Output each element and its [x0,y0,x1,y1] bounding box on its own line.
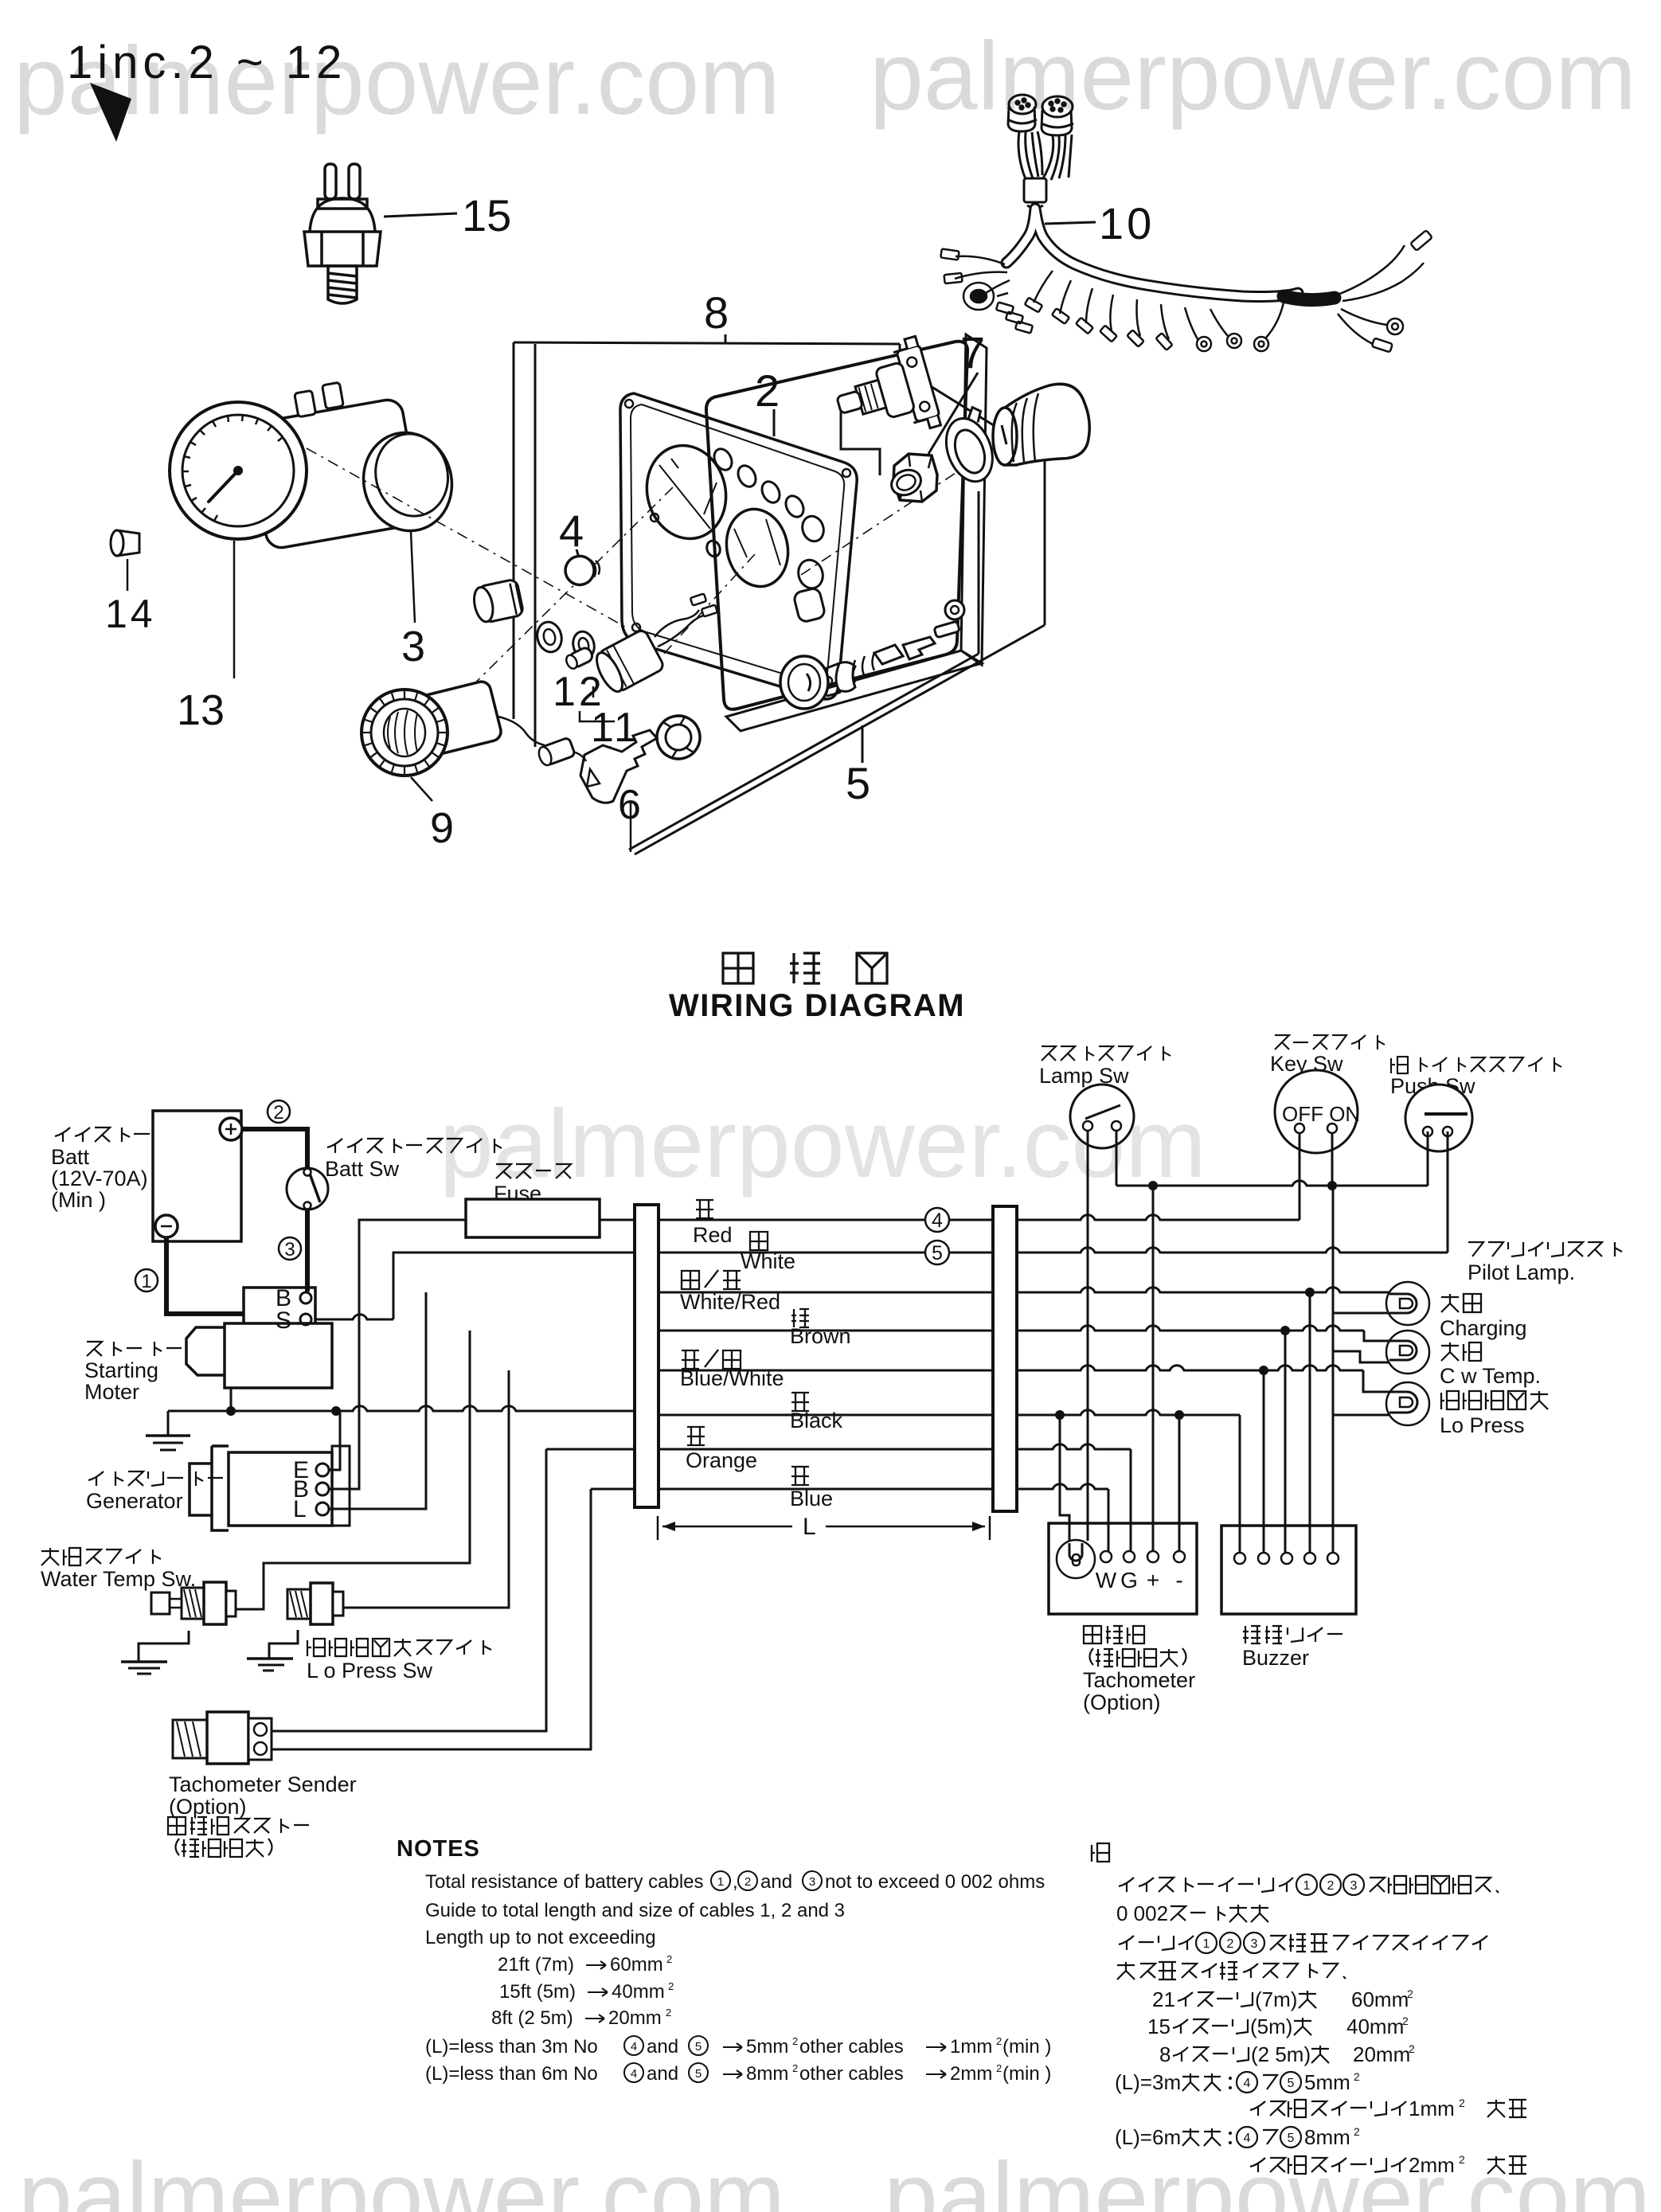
svg-text:15ft (5m): 15ft (5m) [499,1981,576,2003]
svg-text:4: 4 [932,1210,943,1232]
svg-text:(L)=less than 6m No: (L)=less than 6m No [425,2063,598,2085]
tachometer box [1049,1523,1197,1614]
svg-text:Buzzer: Buzzer [1242,1646,1309,1670]
svg-text:(Option): (Option) [169,1795,247,1819]
gauge 13 face [170,402,307,539]
blue wire row [591,1488,993,1491]
battery switch [287,1168,328,1210]
battery minus terminal [155,1215,178,1237]
starter motor label [87,1342,102,1356]
lamp cap 9 knurled [362,690,447,776]
cw temp lamp [1386,1331,1429,1374]
svg-text:1mm: 1mm [1409,2097,1455,2120]
white wire row [659,1252,993,1254]
svg-text:2: 2 [666,2007,671,2019]
leader line 15 [384,213,457,217]
water temp switch label [41,1548,59,1565]
svg-text:(min ): (min ) [1002,2063,1051,2085]
svg-text:palmerpower.com: palmerpower.com [870,21,1636,130]
circled 5 marker [925,1241,949,1264]
svg-text:1: 1 [717,1875,724,1889]
svg-text:9: 9 [430,804,454,852]
svg-text:2: 2 [996,2035,1002,2047]
svg-text:2: 2 [273,1102,283,1124]
gasket plate [620,393,857,699]
blue row right [1017,1484,1108,1489]
panel small holes [711,446,736,473]
svg-text:Lo Press: Lo Press [1440,1413,1525,1437]
svg-text:OFF ON: OFF ON [1282,1102,1360,1126]
red wire row [659,1219,993,1221]
svg-text:5: 5 [1288,2132,1295,2145]
leader line 4 [576,549,579,557]
tach plus wire [1152,1186,1155,1553]
lo press switch wire [343,1370,509,1608]
red row right [1017,1215,1299,1220]
blue wire label [791,1467,809,1485]
svg-text:Blue/White: Blue/White [680,1366,784,1390]
bulb 12 [565,646,595,670]
svg-text:13: 13 [177,686,225,734]
svg-text:(L)=: (L)= [1115,2070,1152,2094]
harness left branch wires [940,249,1033,334]
svg-text:20mm: 20mm [608,2007,662,2029]
lamp switch left wire to tachometer [1087,1131,1089,1541]
svg-text:2: 2 [996,2062,1002,2074]
leader line 5 [862,725,864,763]
white-red wire label [682,1271,699,1289]
svg-text:L: L [293,1496,307,1522]
key switch 5 [780,600,964,709]
dimension line L [657,1516,659,1540]
svg-text:5: 5 [846,758,870,808]
svg-text:3: 3 [1350,1879,1358,1893]
svg-text:8mm: 8mm [746,2063,788,2085]
svg-text:not to exceed 0 002 ohms: not to exceed 0 002 ohms [825,1871,1045,1893]
battery cable 2 wire [242,1129,307,1167]
svg-text:-: - [1175,1568,1182,1593]
svg-text:(Option): (Option) [1083,1690,1161,1714]
push switch left wire [1427,1131,1429,1186]
svg-text:Brown: Brown [790,1324,851,1348]
svg-text:Red: Red [693,1223,733,1247]
leader line 8 [725,334,727,343]
svg-text:20mm: 20mm [1353,2042,1410,2066]
svg-text:5: 5 [695,2067,702,2081]
svg-text:,: , [733,1871,738,1893]
mounting box 8 outline [514,342,900,344]
svg-text:14: 14 [105,592,156,636]
lo press lamp [1386,1382,1429,1425]
battery box [153,1111,241,1241]
battery switch label [327,1139,342,1153]
tachometer label [1084,1626,1101,1643]
orange wire label [687,1427,705,1445]
leader line 9 [411,777,432,801]
generator label [88,1471,104,1486]
washer b [570,629,596,660]
washer a [534,619,565,655]
svg-text:7: 7 [960,327,985,377]
rubber boot [993,384,1089,465]
arrow marker triangle [90,83,131,142]
svg-text:4: 4 [1244,2077,1251,2090]
panel pilot hole small [705,539,722,558]
ignition supply bus wire [1116,1181,1428,1186]
retaining ring 11 [652,711,704,763]
svg-text:4: 4 [631,2040,637,2054]
svg-text:2: 2 [1459,2097,1465,2109]
svg-text:6m: 6m [1152,2125,1181,2149]
panel keyswitch hole [793,587,826,623]
gasket big hole [637,437,736,547]
brown wire label [791,1309,809,1327]
battery switch to starter B wire [305,1209,310,1292]
orange row right [1017,1444,1131,1449]
bezel ring 3 [354,424,463,541]
svg-text:2: 2 [1402,2015,1409,2027]
tachometer sender [173,1712,272,1764]
svg-text:2: 2 [1459,2153,1465,2166]
svg-text:5: 5 [695,2040,702,2054]
ground symbol lo press [247,1657,293,1660]
svg-text:6: 6 [618,782,641,828]
svg-text:2: 2 [668,1980,674,1992]
lo press switch ground wire [269,1630,298,1659]
svg-text:2: 2 [1227,1937,1234,1951]
svg-text:2: 2 [1327,1879,1335,1893]
lo press label [1441,1391,1459,1409]
buzzer label [1243,1626,1260,1643]
red wire label [696,1200,713,1218]
svg-text:15: 15 [462,190,511,240]
notes japanese line 11 [1250,2158,1265,2172]
svg-text:(12V-70A): (12V-70A) [51,1167,148,1190]
leader line 3 [411,532,415,623]
cable 3 circled label [279,1237,301,1260]
generator L to white-red wire [330,1292,426,1509]
svg-text:8ft (2 5m): 8ft (2 5m) [491,2007,573,2029]
push switch [1405,1085,1472,1151]
svg-text:Water Temp Sw.: Water Temp Sw. [41,1567,196,1591]
blue wire to sender [268,1489,591,1749]
leader line 7 [928,373,978,454]
svg-text:L: L [803,1514,816,1540]
lamp switch right wire to bus [1116,1131,1118,1186]
lo press lamp bottom lead [1333,1414,1389,1417]
svg-text:8: 8 [704,287,729,338]
blue-white wire row [635,1370,993,1372]
svg-text:1inc.2 ~ 12: 1inc.2 ~ 12 [67,37,346,88]
lamp switch label [1042,1046,1056,1061]
brown wire row [635,1330,993,1332]
svg-text:1: 1 [1203,1937,1210,1951]
svg-text:3m: 3m [1152,2070,1181,2094]
lock washer [936,405,1002,488]
svg-text:3: 3 [809,1875,815,1889]
svg-text:Moter: Moter [84,1380,139,1404]
svg-text:Tachometer Sender: Tachometer Sender [169,1772,357,1796]
buzzer terminals [1234,1553,1245,1564]
buzzer wire brown branch [1284,1331,1287,1553]
svg-text:NOTES: NOTES [397,1836,480,1862]
lamp socket wires [655,610,707,647]
circled 4 marker [925,1208,949,1232]
panel cutout step [841,403,880,475]
right connector bar [993,1206,1017,1511]
leader line 6 [630,801,632,852]
pilot lamp label [1468,1242,1483,1256]
svg-text:2mm: 2mm [1409,2153,1455,2177]
svg-text:21ft (7m): 21ft (7m) [498,1954,574,1976]
ground symbol main [167,1411,170,1436]
svg-text:Orange: Orange [686,1448,757,1472]
notes japanese line 3 [1119,1936,1134,1950]
buzzer wire blue-white branch [1263,1370,1265,1553]
cw temp label [1441,1342,1459,1361]
leader line 13 [233,541,236,678]
panel right holes [799,514,827,544]
buzzer box [1221,1526,1356,1614]
cw temp lamp second lead [1333,1351,1389,1362]
lamp 9 wire [498,717,545,745]
svg-text:5: 5 [932,1242,943,1264]
water temp switch ground wire [139,1631,189,1662]
svg-text:1: 1 [1303,1879,1311,1893]
harness sleeve [1284,296,1335,300]
svg-text:3: 3 [1251,1937,1258,1951]
svg-text:C w Temp.: C w Temp. [1440,1364,1541,1388]
svg-text:Batt Sw: Batt Sw [325,1157,400,1181]
white wire label [750,1232,768,1250]
nut 7 [893,454,937,502]
blue-white row right [1017,1366,1363,1370]
svg-text:0 002: 0 002 [1116,1901,1168,1925]
svg-text:2: 2 [666,1953,672,1965]
white row right [1017,1248,1448,1253]
svg-text:60mm: 60mm [1351,1987,1409,2011]
white-red wire row [659,1292,993,1294]
svg-text:Starting: Starting [84,1358,158,1382]
key switch label [1275,1035,1289,1049]
harness dangling wires [1025,271,1241,351]
key switch off wire to red [1299,1133,1301,1220]
battery plus terminal [220,1118,242,1140]
svg-text:Total resistance of battery ca: Total resistance of battery cables [425,1871,704,1893]
starter S to white wire [315,1315,393,1319]
svg-text:S: S [276,1307,291,1334]
svg-text:2: 2 [1354,2125,1360,2138]
svg-text:Lamp Sw: Lamp Sw [1039,1064,1129,1088]
svg-text:2: 2 [1407,1987,1413,2000]
battery cable 1 wire [166,1237,244,1314]
sensor switch 15 [304,164,381,303]
blue-white wire label [682,1350,699,1369]
svg-text:other cables: other cables [799,2036,904,2058]
svg-text:2: 2 [792,2035,798,2047]
svg-text:21: 21 [1152,1987,1175,2011]
svg-text:other cables: other cables [799,2063,904,2085]
orange wire to sender [268,1449,546,1731]
lamp switch [1070,1085,1134,1148]
svg-text:G: G [1120,1568,1138,1593]
charging lamp bottom lead [1333,1312,1389,1315]
black wire row [635,1414,993,1417]
harness assembly 10 [1008,95,1073,208]
brown row right [1017,1326,1364,1331]
svg-text:WIRING DIAGRAM: WIRING DIAGRAM [669,988,965,1023]
svg-text:(L)=less than 3m No: (L)=less than 3m No [425,2036,598,2058]
key switch [1275,1070,1358,1153]
svg-text:(L)=: (L)= [1115,2125,1152,2149]
water temp switch wire [236,1331,470,1609]
svg-text:(Min ): (Min ) [51,1188,106,1212]
svg-text:W: W [1096,1568,1117,1593]
svg-text:Pilot Lamp.: Pilot Lamp. [1468,1260,1575,1284]
svg-text:5mm: 5mm [746,2036,788,2058]
tachometer lamp symbol [1057,1540,1095,1578]
svg-text:Length up to not exceeding: Length up to not exceeding [425,1927,656,1948]
gasket screw holes [625,400,633,408]
svg-text:5: 5 [1288,2077,1295,2090]
tach minus wire [1178,1415,1181,1553]
svg-text:10: 10 [1099,198,1155,248]
svg-text:8: 8 [1159,2042,1171,2066]
svg-text:White: White [741,1249,795,1273]
black wire label [791,1393,809,1411]
svg-text:(7m): (7m) [1255,1987,1297,2011]
svg-text:Black: Black [790,1409,843,1432]
svg-text:palmerpower.com: palmerpower.com [884,2142,1651,2212]
lamp body 9 [408,680,502,759]
ignition switch upper [827,336,942,451]
starter ground wire [230,1388,233,1411]
svg-text:(5m): (5m) [1250,2015,1292,2038]
svg-text:40mm: 40mm [612,1981,665,2003]
notes japanese line 9 [1250,2101,1265,2116]
svg-text:L o Press Sw: L o Press Sw [307,1659,433,1682]
orange wire row [546,1448,993,1451]
white-red row right [1017,1288,1389,1292]
push switch right wire to white [1447,1131,1449,1253]
lamp socket 12 [592,628,666,696]
svg-text:and: and [647,2063,678,2085]
svg-text:White/Red: White/Red [680,1290,780,1314]
svg-text:palmerpower.com: palmerpower.com [18,2142,785,2212]
tach lamp wire [1060,1415,1069,1542]
harness right wires [1254,230,1432,352]
fuse to red row wire [600,1219,635,1221]
charging label [1441,1294,1459,1312]
cable 1 circled label [135,1269,158,1292]
generator body [190,1446,332,1530]
svg-text:2: 2 [792,2062,798,2074]
svg-text:Guide to total length and size: Guide to total length and size of cables… [425,1900,845,1921]
svg-text:(min ): (min ) [1002,2036,1051,2058]
svg-text:Tachometer: Tachometer [1083,1668,1195,1692]
charging lamp [1386,1282,1429,1325]
key switch on wire common [1331,1133,1334,1186]
notes japanese line 4 [1117,1962,1135,1979]
svg-text:1mm: 1mm [950,2036,992,2058]
water temp switch [151,1582,236,1624]
leader line 10 [1045,222,1096,224]
generator B to fuse wire [330,1220,466,1489]
lo press switch [287,1583,343,1624]
button part [471,579,524,624]
svg-text:2: 2 [1409,2042,1415,2055]
svg-text:Batt: Batt [51,1145,90,1169]
svg-text:40mm: 40mm [1346,2015,1404,2038]
leader line 14 [127,559,129,591]
ground symbol water temp [121,1660,167,1663]
axis construction lines [307,448,629,629]
svg-text:4: 4 [631,2067,637,2081]
svg-text:and: and [760,1871,792,1893]
black row right [1017,1410,1240,1415]
title wiring diagram japanese [723,953,753,983]
generator E ground wire [330,1413,340,1470]
svg-text:(2 5m): (2 5m) [1251,2042,1311,2066]
left connector bar [635,1205,659,1507]
svg-text:Charging: Charging [1440,1316,1527,1340]
bulb part 14 [117,530,139,556]
tachometer terminals [1100,1551,1112,1562]
svg-text:5mm: 5mm [1304,2070,1350,2094]
fuse box [466,1199,600,1237]
notes japanese line 1 [1119,1878,1134,1892]
svg-text:2: 2 [745,1875,751,1889]
key 6 [580,730,657,803]
svg-text:Blue: Blue [790,1487,833,1510]
svg-text:8mm: 8mm [1304,2125,1350,2149]
svg-text:15: 15 [1147,2015,1171,2038]
panel plate center hole [720,503,795,592]
gauge needle [209,471,238,502]
cable 2 circled label [268,1100,290,1123]
svg-text:60mm: 60mm [610,1954,663,1976]
blanking knob 4 [563,553,603,588]
fuse label [496,1164,511,1178]
svg-text:1: 1 [141,1271,151,1292]
svg-text:2: 2 [1354,2070,1360,2083]
push switch label [1391,1057,1408,1073]
svg-text:and: and [647,2036,678,2058]
starter motor body [186,1288,332,1388]
lo press switch label [307,1639,325,1656]
svg-text:+: + [1147,1568,1159,1593]
svg-text:3: 3 [401,623,425,670]
buzzer wire white-red branch [1309,1292,1311,1553]
svg-text:4: 4 [1244,2132,1251,2145]
ground bus wire [168,1406,635,1411]
notes japanese heading [1092,1843,1109,1862]
tachometer gauge 13 body [242,373,422,550]
svg-text:2mm: 2mm [950,2063,992,2085]
leader line 2 [773,409,776,436]
battery label [55,1127,70,1142]
svg-text:3: 3 [284,1239,295,1260]
svg-text:4: 4 [559,506,584,556]
panel plate 2 [706,334,987,731]
svg-text:2: 2 [755,365,780,416]
svg-text:Generator: Generator [86,1489,183,1513]
